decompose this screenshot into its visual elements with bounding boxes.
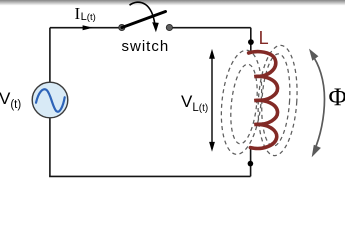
flux line right inner (dashed ellipse)	[259, 53, 292, 147]
wire right upper (corner down to inductor)	[250, 28, 252, 51]
switch left node	[119, 24, 125, 30]
wire right lower (inductor to bottom corner)	[250, 148, 252, 176]
flux line left inner (dashed ellipse)	[227, 63, 260, 145]
label L	[259, 29, 269, 47]
wire top left segment	[50, 27, 122, 29]
top toolbar shadow	[0, 0, 345, 6]
switch arrowhead	[152, 22, 159, 32]
AC source V(t)	[32, 82, 68, 118]
flux line left outer (dashed ellipse)	[217, 48, 267, 156]
inductor bottom junction dot	[248, 161, 254, 167]
label Phi	[329, 85, 345, 110]
flux direction curved double arrow	[312, 54, 325, 150]
label I_L(t)	[75, 5, 96, 22]
V_L(t) voltage double arrow	[211, 56, 213, 144]
wire left upper	[49, 28, 51, 82]
wire left lower	[49, 118, 51, 176]
switch right node	[166, 24, 172, 30]
inductor coil L	[249, 52, 278, 149]
switch closing curved arrow	[130, 2, 155, 24]
flux line right outer (dashed ellipse)	[255, 44, 300, 157]
sine wave inside source	[36, 89, 65, 112]
inductor top junction dot	[248, 39, 254, 45]
wire bottom	[49, 175, 251, 177]
label V_L(t)	[181, 93, 208, 111]
wire top right segment	[169, 27, 250, 29]
label V(t)	[0, 90, 21, 108]
switch blade	[122, 12, 166, 28]
current direction arrowhead	[83, 25, 93, 30]
label switch	[122, 39, 170, 54]
